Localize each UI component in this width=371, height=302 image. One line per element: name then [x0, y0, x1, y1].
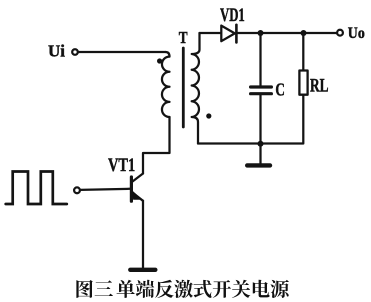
transformer T primary winding (4 arcs, left side) — [162, 52, 170, 117]
terminal: drive input (open circle) — [74, 187, 80, 193]
ground (secondary side) stub — [259, 144, 261, 164]
wire: top junction down to resistor RL — [302, 33, 304, 71]
wire: secondary top to diode VD1 anode — [200, 32, 222, 34]
wire: top junction down to capacitor C — [259, 33, 261, 85]
transformer core bar — [182, 48, 185, 127]
wire: diode cathode to output terminal — [236, 32, 337, 34]
svg-text:C: C — [275, 80, 285, 100]
resistor RL body — [299, 71, 307, 95]
wire: drive terminal to VT1 base — [80, 189, 130, 190]
transformer T secondary winding (4 arcs, right side) — [192, 33, 200, 144]
svg-text:VT1: VT1 — [108, 155, 135, 176]
svg-text:Ui: Ui — [48, 42, 65, 61]
polarity dot (primary) — [157, 58, 162, 63]
wire: capacitor C bottom to ground rail — [259, 95, 261, 143]
polarity dot (secondary) — [206, 113, 211, 118]
wire: primary bottom lead down, left, down to VT1 collector — [143, 117, 170, 174]
wire: Ui terminal to transformer primary top — [78, 51, 165, 53]
ground (secondary side) bar — [247, 163, 270, 167]
ground (emitter) bar — [130, 268, 155, 272]
terminal Ui (open circle) — [72, 49, 78, 55]
svg-text:VD1: VD1 — [220, 6, 245, 26]
svg-text:Uo: Uo — [348, 25, 365, 42]
caption: 图三 单端反激式开关电源 — [76, 280, 289, 298]
junction node (bottom rail / ground tap) — [258, 141, 264, 147]
terminal Uo (open circle) — [337, 30, 343, 36]
transistor VT1 collector diagonal — [133, 174, 144, 182]
wire: VT1 emitter down to ground — [142, 201, 144, 268]
junction node (top, capacitor tap) — [258, 30, 264, 36]
transistor VT1 base bar — [130, 177, 133, 201]
transistor VT1 emitter arrowhead — [132, 190, 142, 200]
transistor VT1 emitter diagonal — [133, 193, 144, 201]
square wave drive signal symbol — [6, 172, 67, 205]
wire: bottom rail (secondary bottom to RL bottom) — [198, 95, 303, 144]
junction node (top, RL tap) — [301, 30, 307, 36]
svg-text:RL: RL — [310, 77, 329, 97]
svg-text:T: T — [179, 28, 188, 47]
capacitor C plates — [251, 87, 272, 94]
diode VD1 triangle — [221, 26, 235, 42]
diode VD1 cathode bar — [235, 25, 238, 43]
